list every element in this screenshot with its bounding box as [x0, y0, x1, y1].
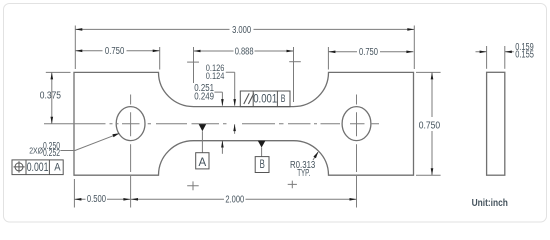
svg-text:0.155: 0.155 [515, 49, 534, 60]
svg-text:0.001: 0.001 [253, 91, 277, 105]
svg-text:TYP.: TYP. [297, 168, 310, 179]
svg-text:0.124: 0.124 [206, 71, 225, 81]
svg-text:0.375: 0.375 [40, 91, 62, 102]
svg-text:2XØ: 2XØ [29, 147, 43, 156]
svg-text:0.249: 0.249 [194, 92, 214, 103]
svg-text:2.000: 2.000 [225, 195, 244, 206]
svg-text:A: A [54, 162, 61, 174]
svg-text:0.001: 0.001 [27, 160, 49, 174]
svg-text:Unit:inch: Unit:inch [472, 198, 508, 209]
svg-text:B: B [260, 158, 265, 171]
svg-text:3.000: 3.000 [232, 25, 251, 36]
svg-text:A: A [199, 155, 207, 169]
svg-text:0.750: 0.750 [359, 47, 378, 58]
svg-text:0.888: 0.888 [235, 47, 254, 58]
svg-text:0.750: 0.750 [419, 121, 441, 132]
svg-text:B: B [281, 93, 286, 105]
svg-text:0.750: 0.750 [105, 46, 125, 57]
svg-text:0.500: 0.500 [87, 194, 106, 205]
svg-text:0.252: 0.252 [43, 148, 60, 159]
